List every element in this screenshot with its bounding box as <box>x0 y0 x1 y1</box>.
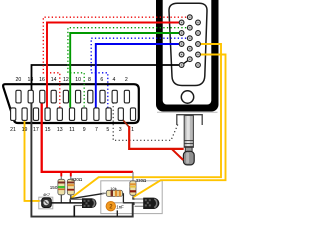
wire jumper VGA gnd pins <box>182 59 190 65</box>
svg-text:17: 17 <box>33 127 39 133</box>
wire green solid VGA G to SCART11 <box>70 33 181 108</box>
VGA pin center dots <box>181 17 199 66</box>
wire junction connector <box>69 199 71 204</box>
box U2 sync circuit white panel <box>101 181 162 214</box>
VGA pins right column <box>196 20 201 67</box>
SCART pin numbers top <box>16 77 128 83</box>
wire red SCART16 blanking feed <box>42 103 133 172</box>
svg-text:4: 4 <box>113 77 116 83</box>
SCART top row slots <box>16 90 130 103</box>
svg-text:13: 13 <box>57 127 63 133</box>
wire cap to bus <box>116 210 118 216</box>
resistor R2 330 <box>67 176 74 199</box>
svg-text:10: 10 <box>75 77 81 83</box>
VGA D-face <box>169 3 207 85</box>
svg-text:4K7: 4K7 <box>43 192 51 197</box>
trimmer RV1 4K7 <box>42 198 51 207</box>
shell bottom shadow line <box>157 111 218 113</box>
resistor R4 330 <box>130 181 136 197</box>
wire lead 330 resistor R4 top <box>132 172 134 181</box>
VGA pins middle column <box>187 15 192 62</box>
wire yellow vsync VGA to resistor R4 <box>133 55 225 198</box>
wire blue solid VGA B to SCART7 <box>96 44 182 108</box>
VGA pins left column <box>179 20 184 67</box>
svg-text:12: 12 <box>63 77 69 83</box>
wire red stub to R2 <box>70 172 72 177</box>
wire gnd SCART18 bottom bus <box>31 103 134 217</box>
svg-text:20: 20 <box>16 77 22 83</box>
screw post below VGA <box>183 116 194 165</box>
connector J1 SCART body <box>3 84 139 123</box>
wire red branch to screw cap <box>172 149 183 160</box>
svg-text:7: 7 <box>95 127 98 133</box>
svg-text:15: 15 <box>45 127 51 133</box>
screw post bracket below VGA <box>177 115 202 125</box>
svg-text:1: 1 <box>131 127 134 133</box>
wire red solid VGA R to SCART15 <box>47 23 182 108</box>
wire red SCART3 to screw <box>122 118 130 127</box>
wire shield dotted SCART4 to screw <box>113 103 178 141</box>
wire red gnd dotted to SCART13 <box>43 17 190 107</box>
SCART bottom row slots <box>11 108 136 121</box>
svg-text:330Ω: 330Ω <box>136 178 147 183</box>
svg-text:2: 2 <box>125 77 128 83</box>
box trimmer panel <box>39 197 53 209</box>
wire base diagonal to 10k <box>70 193 104 199</box>
svg-text:330Ω: 330Ω <box>71 177 83 182</box>
wire 330 bottom to Q2 <box>133 197 135 199</box>
wire green gnd dotted to SCART9 <box>68 28 190 108</box>
svg-text:1nF: 1nF <box>116 204 124 209</box>
wire gnd riser transistor Q1 <box>73 206 75 217</box>
connector J2 VGA shell <box>156 0 219 112</box>
wire 10k to Q2 base <box>123 193 134 203</box>
svg-text:11: 11 <box>69 127 74 133</box>
wire yellow hsync VGA to junction <box>70 44 221 199</box>
svg-text:3: 3 <box>119 127 122 133</box>
wire yellow SCART19 to trimmer <box>25 120 40 201</box>
svg-text:150: 150 <box>50 185 58 190</box>
wire red stub to R1 <box>60 172 62 177</box>
resistor R1 150 <box>58 176 65 203</box>
resistor R3 10k <box>102 190 124 196</box>
VGA screw hole <box>181 91 193 103</box>
svg-text:6: 6 <box>100 77 103 83</box>
svg-text:14: 14 <box>51 77 57 83</box>
capacitor C1 1nF <box>106 202 115 211</box>
svg-text:9: 9 <box>83 127 86 133</box>
svg-text:19: 19 <box>22 127 28 133</box>
wire cap to base node <box>110 202 123 204</box>
svg-text:10k: 10k <box>110 186 116 191</box>
wire trimmer to transistor Q1 <box>51 202 82 204</box>
SCART pin numbers bottom <box>10 127 134 133</box>
transistor Q2 <box>135 198 160 209</box>
svg-text:21: 21 <box>10 127 16 133</box>
wire sync black SCART18 to VGA <box>32 65 182 91</box>
wire blue gnd dotted to SCART5 <box>91 38 190 107</box>
svg-text:5: 5 <box>106 127 109 133</box>
svg-text:16: 16 <box>39 77 45 83</box>
svg-text:8: 8 <box>88 77 91 83</box>
transistor Q1 <box>70 198 96 208</box>
svg-text:18: 18 <box>28 77 34 83</box>
